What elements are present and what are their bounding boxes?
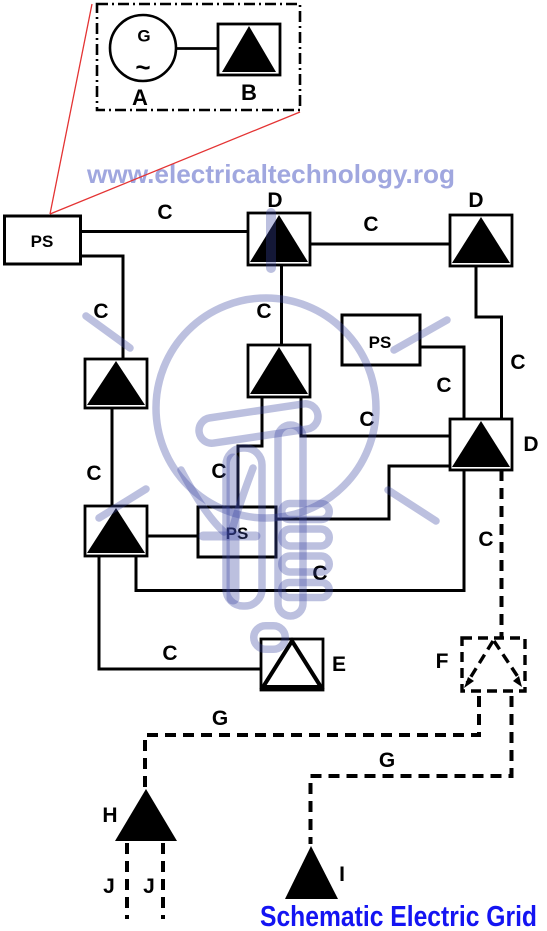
svg-text:G: G <box>379 749 395 772</box>
svg-text:D: D <box>468 189 483 212</box>
svg-text:C: C <box>157 201 172 224</box>
fist finger 1 <box>282 504 330 520</box>
dashed wire J (left) below H <box>125 843 129 919</box>
dashed wire C: D3 down to F <box>500 470 504 638</box>
wire generator A to transformer B <box>176 47 218 50</box>
load H triangle <box>115 789 177 841</box>
detail callout dash-dot box <box>97 4 300 110</box>
wire T3 to PS3 <box>147 535 198 538</box>
transformer D1 triangle <box>250 215 308 262</box>
wire PS1 down to transformer T1 <box>80 256 123 360</box>
svg-text:Schematic Electric Grid: Schematic Electric Grid <box>260 901 537 931</box>
generator A circle <box>110 15 176 81</box>
transformer D1 box (top middle) <box>248 213 310 265</box>
transformer T1 triangle <box>87 361 145 405</box>
svg-text:G: G <box>212 707 228 730</box>
svg-text:H: H <box>102 804 117 827</box>
ray lower left <box>99 489 146 518</box>
fist finger 4 <box>282 583 330 598</box>
bulb glass neck curve left <box>181 470 224 532</box>
svg-text:F: F <box>436 650 449 673</box>
transformer B triangle <box>222 26 276 72</box>
watermark bulb overlay <box>86 213 447 649</box>
fist wrist column left inner band <box>227 460 240 598</box>
dashed wire G: F down, left, down to H <box>145 696 479 788</box>
svg-text:www.electricaltechnology.rog: www.electricaltechnology.rog <box>86 159 455 189</box>
svg-text:PS: PS <box>369 333 392 352</box>
svg-text:B: B <box>241 80 257 105</box>
svg-text:J: J <box>143 875 155 898</box>
bulb collar band <box>203 532 256 541</box>
svg-text:~: ~ <box>135 52 150 82</box>
wire PS3 right then up then right to D3 <box>276 466 450 519</box>
wire C: PS2 right then down to D3 <box>420 347 464 420</box>
svg-text:G: G <box>137 27 150 46</box>
bulb glass neck curve inner <box>232 468 253 530</box>
svg-text:I: I <box>339 863 345 886</box>
load I triangle <box>285 846 338 899</box>
svg-text:C: C <box>478 528 493 551</box>
transformer D2 triangle <box>452 217 510 263</box>
power station PS2 box (right) <box>342 315 420 365</box>
bulb circle <box>156 298 376 518</box>
svg-text:PS: PS <box>31 232 54 251</box>
svg-text:C: C <box>256 300 271 323</box>
fist wrist column right (handle) <box>278 425 303 616</box>
transformer T3 triangle <box>87 508 145 553</box>
wire T2 left-bottom down-left-down to PS3 <box>238 397 262 507</box>
wire C: T3 bottom down then right to E <box>99 556 261 669</box>
transformer T2 box (middle) <box>248 345 310 397</box>
transformer T2 triangle <box>250 347 308 394</box>
fist pinky bottom pill <box>254 626 286 650</box>
svg-text:C: C <box>510 351 525 374</box>
power station PS3 box (lower middle) <box>198 507 276 557</box>
transformer F dashed triangle left side with arrowhead <box>467 641 493 683</box>
svg-text:C: C <box>162 642 177 665</box>
fist thumb tilted pill <box>197 402 319 445</box>
ray top <box>266 213 276 268</box>
transformer D3 triangle <box>452 421 510 467</box>
fist wrist column left outline <box>226 448 262 606</box>
svg-text:J: J <box>103 875 115 898</box>
transformer T3 box (lower left) <box>85 506 147 556</box>
wire C: D2 down then right then down to D3 <box>476 266 502 420</box>
transformer F dashed triangle right side with arrowhead <box>494 641 520 680</box>
wire C: D1 down to transformer T2 <box>280 265 283 346</box>
dashed wire J (right) below H <box>161 843 165 919</box>
wire C: T3 bottom down right up to D3 bottom <box>136 470 464 591</box>
svg-text:A: A <box>132 85 148 110</box>
transformer T1 box (upper left) <box>85 359 147 408</box>
ray upper right <box>394 320 447 350</box>
wire C: PS1 to transformer D1 <box>80 230 249 233</box>
power station PS1 box (left) <box>5 216 81 264</box>
transformer F dashed box <box>462 638 525 691</box>
svg-text:D: D <box>523 433 538 456</box>
red callout line right <box>50 112 300 214</box>
transformer B box <box>218 24 280 75</box>
svg-text:C: C <box>436 374 451 397</box>
svg-text:E: E <box>332 653 346 676</box>
fist finger 3 <box>282 556 330 572</box>
transformer E box <box>261 639 323 690</box>
wire C: D1 to D2 <box>310 243 450 246</box>
wire C: T1 down to T3 <box>111 408 114 507</box>
wire C: T2 right-bottom down then right to D3 <box>301 397 450 436</box>
fist finger 2 <box>282 529 330 546</box>
transformer D2 box (top right) <box>450 215 512 266</box>
ray upper left <box>86 316 130 348</box>
svg-text:C: C <box>363 213 378 236</box>
dashed wire G: F down, left, down to I <box>311 696 512 844</box>
ray lower right <box>388 490 436 521</box>
svg-text:C: C <box>86 462 101 485</box>
transformer E triangle outline <box>263 641 321 687</box>
transformer D3 box (right middle) <box>450 419 512 470</box>
red callout line left <box>50 4 92 214</box>
